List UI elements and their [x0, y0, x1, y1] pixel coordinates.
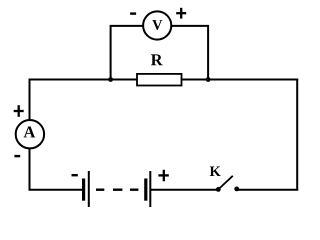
- wire bottom-right segment from switch: [237, 189, 299, 191]
- resistor R1 body: [137, 74, 182, 86]
- label ammeter positive "+": [14, 105, 24, 117]
- battery right cell positive plate (long thin): [149, 171, 151, 207]
- wire voltmeter branch left (up and across): [111, 26, 143, 80]
- battery left cell negative plate (short thick): [82, 179, 85, 201]
- battery left cell positive plate (long thin): [88, 171, 90, 207]
- wire voltmeter branch right (across and down): [172, 26, 208, 80]
- wire bottom-left segment to battery: [29, 189, 84, 191]
- voltmeter V1: [143, 11, 171, 39]
- wire left vertical (through ammeter): [29, 79, 31, 191]
- switch K right contact dot: [234, 187, 239, 192]
- label battery positive terminal "+": [158, 170, 168, 181]
- label voltmeter negative "-": [130, 12, 136, 14]
- label voltmeter positive "+": [176, 8, 186, 19]
- ammeter A1: [16, 120, 44, 148]
- switch K left contact dot: [216, 187, 221, 192]
- wire bottom segment battery to switch: [150, 189, 218, 191]
- node junction dot voltmeter right: [206, 77, 211, 82]
- node junction dot voltmeter left: [108, 77, 113, 82]
- label R: [151, 54, 163, 65]
- label battery negative terminal "-": [72, 174, 78, 176]
- wire right vertical: [296, 79, 298, 191]
- label K: [210, 167, 221, 176]
- wire dashed link between battery cells: [96, 188, 138, 190]
- switch K blade: [218, 176, 233, 190]
- battery right cell negative plate (short thick): [144, 179, 147, 201]
- label ammeter negative "-": [14, 155, 20, 157]
- wire top main horizontal: [29, 79, 299, 81]
